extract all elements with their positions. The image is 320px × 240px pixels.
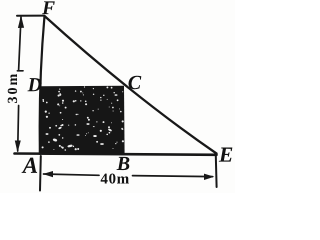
arrowhead right (40m right): [204, 174, 214, 180]
30m dimension line small dash: [17, 70, 23, 72]
arrowhead down (30m bottom): [15, 141, 21, 153]
dimension extension line below A: [39, 156, 42, 191]
wire top extension tick at F: [17, 15, 44, 17]
vertex label A: [22, 158, 38, 173]
30m dimension line upper segment: [19, 17, 21, 71]
hypotenuse FE: [45, 16, 217, 154]
30m dimension line lower segment: [17, 106, 20, 152]
dimension extension line below E: [215, 156, 218, 188]
vertex label D: [28, 78, 42, 91]
side AF (left vertical edge of triangle): [40, 16, 45, 154]
background paper: [0, 0, 235, 193]
shaded rectangle ABCD: [39, 86, 125, 155]
vertex label F: [42, 1, 55, 14]
vertex label C: [129, 76, 142, 89]
rectangle speckle texture: [42, 86, 124, 150]
vertex label B: [117, 157, 130, 170]
bottom edge AE with left extension tick: [15, 154, 217, 155]
arrowhead up (30m top): [18, 15, 24, 28]
vertex label E: [219, 148, 233, 162]
dimension text 30m (rotated): [8, 74, 17, 103]
40m dimension line right segment: [133, 176, 213, 177]
40m dimension line left segment: [44, 174, 100, 175]
dimension text 40m: [101, 173, 129, 183]
arrowhead left (40m left): [43, 171, 53, 177]
